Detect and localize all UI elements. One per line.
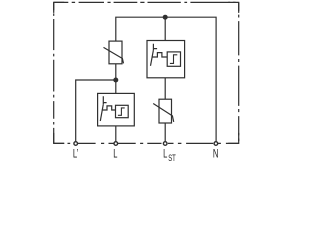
label N (213, 149, 219, 161)
label LST (163, 149, 176, 163)
enclosure boundary right edge (dash-dot) (238, 2, 240, 143)
disconnector F1 trigger link with pulse (102, 106, 116, 110)
disconnector F2 trigger box (167, 52, 180, 66)
disconnector F2 trigger link with pulse (152, 53, 167, 57)
varistor RV2 diagonal stroke with tail (153, 104, 174, 122)
wire junction B to terminal L' (76, 80, 116, 141)
varistor RV1 body (109, 41, 122, 64)
node A (junction dot on top bus wire) (163, 15, 168, 20)
disconnector F2 blade (151, 50, 154, 66)
svg-text:L’: L’ (73, 149, 79, 161)
svg-text:L: L (163, 149, 168, 161)
svg-text:N: N (213, 149, 219, 161)
disconnector F2 step glyph (170, 55, 177, 64)
node B (junction dot between RV1 and F1) (113, 78, 118, 83)
enclosure boundary left edge (dash-dot) (53, 2, 55, 143)
wire F1 bottom to terminal L (115, 126, 117, 141)
terminal LST circle (163, 142, 167, 146)
disconnector F2 outer box (147, 41, 185, 78)
disconnector F1 outer box (98, 93, 135, 126)
disconnector F1 trigger box (116, 105, 129, 117)
terminal L circle (114, 142, 118, 146)
disconnector F1 contact stub with tick (103, 96, 106, 104)
wire varistor RV2 bottom to terminal LST (164, 123, 166, 141)
wire F2 bottom to varistor RV2 (164, 78, 166, 99)
terminal N circle (214, 142, 218, 146)
label L' (73, 149, 79, 161)
disconnector F1 step glyph (118, 108, 125, 115)
label L (113, 149, 118, 161)
varistor RV1 diagonal stroke with tail (104, 47, 124, 63)
svg-text:ST: ST (168, 153, 176, 163)
enclosure boundary corner arms (solid) (54, 2, 239, 143)
top bus wire from varistor RV1 up, across, down to terminal N (116, 17, 216, 141)
disconnector F2 contact stub with tick (153, 44, 157, 50)
disconnector F1 blade (100, 104, 103, 121)
wire varistor RV1 bottom to junction B and disconnector F1 (115, 64, 117, 94)
terminal L' circle (74, 142, 78, 146)
enclosure boundary top edge (dash-dot) (54, 1, 239, 3)
enclosure boundary bottom edge (dash-dot through terminals) (54, 142, 239, 144)
varistor RV2 body (159, 99, 172, 123)
wire node A down to disconnector F2 (164, 17, 166, 40)
svg-text:L: L (113, 149, 118, 161)
